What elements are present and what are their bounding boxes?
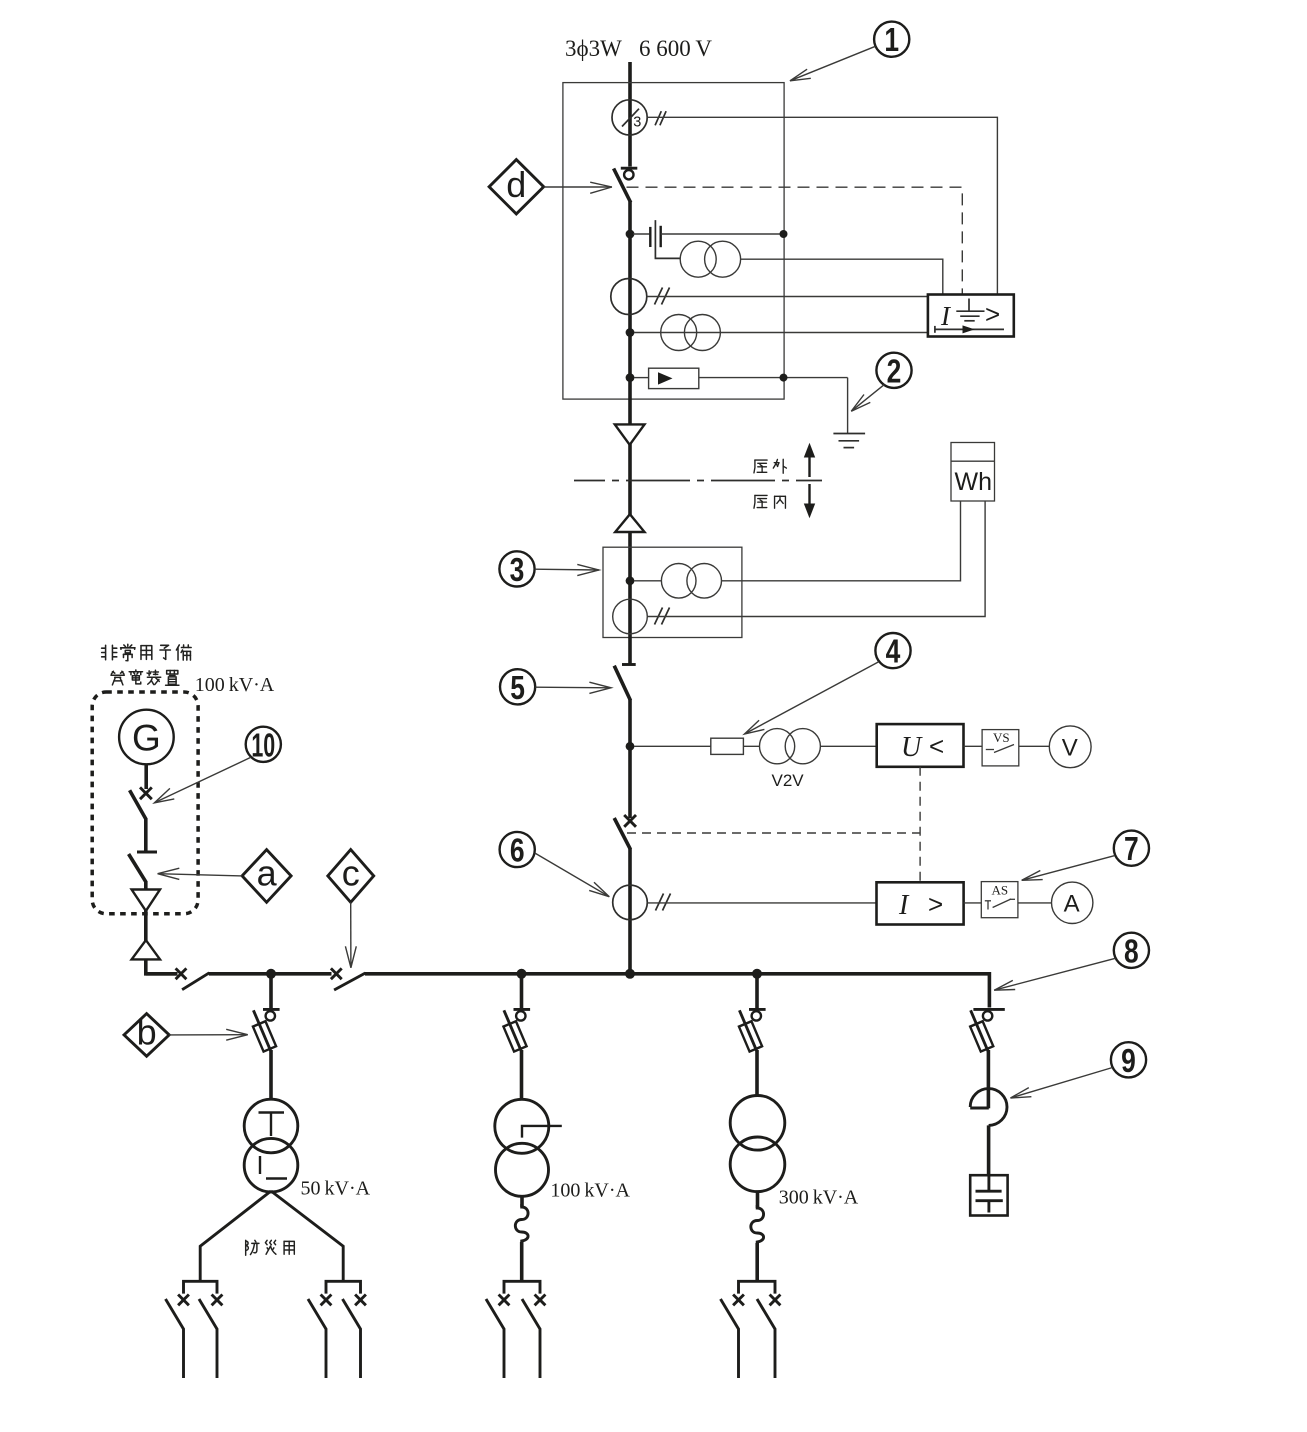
wire: T2 secondary (520, 1196, 524, 1208)
ammeter changeover switch AS (981, 882, 1018, 918)
branch breaker L3-1: contact cross (499, 1295, 510, 1306)
up arrow (outdoor side) (804, 443, 815, 477)
label diamond b (124, 1012, 169, 1057)
wire: T3 secondary to branch bar (755, 1243, 759, 1281)
double-slash mark on ZCT secondary wire (655, 111, 666, 125)
generator cable head (down triangle) (132, 890, 160, 911)
branch breaker L2-1: outgoing line (325, 1329, 328, 1379)
leader arrow from 3 to metering box (535, 564, 599, 575)
wire: CT secondary to ground relay left (lower) (634, 332, 928, 334)
branch bar (L4) (739, 1281, 776, 1293)
voltmeter V (1049, 726, 1091, 768)
metering CT circle (613, 599, 648, 634)
svg-text:5: 5 (510, 670, 525, 706)
feeder 3 fuse holder: hook eye (752, 1011, 761, 1020)
transformer T3 300kVA (two circles) (730, 1096, 785, 1192)
svg-text:A: A (1064, 891, 1080, 918)
bus tie switch c: contact cross (331, 968, 342, 979)
generator breaker 10: contact cross (140, 787, 152, 799)
disconnector a: blade (129, 854, 147, 882)
wire: indoor cable head into metering box (628, 531, 632, 583)
node: feeder 2 tap (517, 969, 527, 979)
leader arrow from 9 to reactor (1011, 1068, 1113, 1099)
svg-text:100 kV·A: 100 kV·A (195, 674, 275, 696)
transformer T1 50kVA (two circles) (244, 1099, 298, 1192)
leader arrow from 6 to CT (535, 853, 610, 897)
directional ground relay I-earth-> box (928, 295, 1014, 337)
wire: main line box1 bottom to outdoor cable head (628, 380, 632, 425)
capacitor feeder fuse (tilted barrel with blade) (964, 1008, 994, 1056)
bus tie switch b-side: contact cross (176, 968, 187, 979)
feeder 1 fuse holder: hook eye (266, 1011, 275, 1020)
wire AS to ammeter (1018, 902, 1052, 904)
CT pair (two circles) (661, 315, 721, 351)
bus segment 2 (209, 972, 332, 976)
svg-text:10: 10 (251, 727, 275, 764)
wire below disconnector a (144, 881, 148, 890)
wire: main line below breaker (628, 849, 632, 974)
power fuse cutout on capacitor feeder: contact bar (973, 1008, 1004, 1011)
balloon label 10 (246, 727, 281, 764)
svg-text:7: 7 (1124, 831, 1139, 867)
wire: ZCT secondary to ground relay (647, 117, 997, 294)
wire: T2 secondary to branch bar (520, 1242, 524, 1281)
svg-text:AS: AS (992, 883, 1009, 898)
outdoor cable head (down triangle) (615, 424, 645, 444)
branch breaker L3-2: contact cross (535, 1295, 546, 1306)
wire: fuse to transformer T2 (520, 1050, 524, 1100)
label generator set (hatsuden souchi) (111, 671, 124, 685)
node: ZPD tap on main line (626, 230, 635, 239)
node: incoming line to bus (625, 969, 635, 979)
wire below generator breaker (144, 819, 148, 852)
svg-text:2: 2 (887, 354, 902, 390)
balloon label 7 (1114, 831, 1149, 868)
load-break switch d: hook eye (624, 170, 633, 179)
load-break switch d: blade (614, 169, 631, 203)
dashed link U< to I> (919, 767, 921, 883)
transformer T2 100kVA (two circles with tap) (495, 1099, 562, 1196)
capacitor feeder fuse holder: hook eye (983, 1011, 992, 1020)
bus tie switch c: blade (334, 973, 365, 990)
flexible lead (feeder 2) (515, 1204, 528, 1243)
leader arrow from 4 to VT fuse (745, 662, 879, 734)
branch breaker L2-1: contact cross (321, 1295, 332, 1306)
branch breaker L3-2: outgoing line (539, 1329, 542, 1379)
svg-text:1: 1 (884, 22, 899, 58)
branch bar (L3) (504, 1281, 540, 1293)
node on box edge conductor (780, 230, 788, 238)
double-slash mark on ammeter CT wire (656, 894, 671, 911)
leader arrow from d to switch (544, 182, 612, 193)
branch breaker L4-2: outgoing line (774, 1329, 777, 1379)
branch breaker L1-2: blade (199, 1299, 217, 1330)
dashed link breaker 6 to relays (627, 832, 920, 834)
branch breaker L2-2: blade (343, 1299, 361, 1330)
label diamond a (242, 850, 291, 903)
svg-text:V: V (1062, 735, 1078, 762)
disconnector 5: blade (614, 666, 630, 701)
svg-text:I: I (898, 890, 910, 921)
label diamond c (328, 850, 374, 903)
flexible lead (feeder 3) (751, 1205, 764, 1244)
branch breaker L4-1: outgoing line (737, 1329, 740, 1379)
branch breaker L3-1: blade (486, 1299, 504, 1330)
svg-text:V2V: V2V (772, 771, 805, 790)
feeder 3 fuse holder: contact bar (749, 1008, 766, 1011)
svg-text:50 kV·A: 50 kV·A (301, 1178, 371, 1200)
wire: VT secondary to Wh meter (722, 501, 961, 581)
bus tie switch b-side: blade (182, 973, 209, 990)
leader arrow from 8 to bus end (994, 958, 1115, 990)
feeder 3 fuse (tilted barrel with blade) (733, 1008, 763, 1056)
wire: main line below disconnector (628, 700, 632, 819)
branch breaker L2-2: contact cross (355, 1295, 366, 1306)
wire between generator cable heads (144, 910, 148, 941)
overcurrent relay box I> (877, 882, 964, 924)
wire: CT secondary to Wh meter (647, 501, 985, 617)
ZPD auxiliary transformer (two circles) (680, 241, 740, 277)
wire: generator to breaker (144, 764, 148, 789)
label bousai-you (disaster prevention) (246, 1240, 259, 1255)
node: feeder 1 tap (266, 969, 276, 979)
branch breaker L4-2: blade (757, 1299, 775, 1330)
generator enclosure (dashed rounded box) (92, 692, 198, 914)
branch bar (L2) (326, 1281, 361, 1293)
wire: down to earth electrode (847, 378, 849, 434)
earth electrode E (833, 434, 865, 448)
balloon label 5 (500, 669, 535, 706)
branch breaker L4-2: contact cross (770, 1295, 781, 1306)
down arrow (indoor side) (804, 484, 815, 518)
metering VT (two circles) (661, 564, 721, 599)
branch breaker L2-1: blade (308, 1299, 326, 1330)
label okunai (indoor) (754, 495, 767, 508)
svg-text:U: U (901, 732, 923, 763)
indoor/outdoor boundary dash-dot line (574, 480, 822, 482)
feeder 2 fuse holder: contact bar (514, 1008, 531, 1011)
svg-text:a: a (257, 853, 278, 894)
undervoltage relay box U< (877, 724, 964, 767)
svg-text:d: d (506, 164, 526, 205)
watt-hour meter Wh (951, 443, 995, 502)
series reactor (9) (970, 1089, 1007, 1126)
wire: incoming service line (628, 62, 632, 167)
disconnector 5: fixed contact bar (622, 663, 636, 666)
wire: main line below switch d (628, 202, 632, 381)
bus segment 3 with right corner drop (365, 974, 989, 1008)
branch breaker L1-1: blade (166, 1299, 184, 1330)
indoor cable head (up triangle) (615, 514, 644, 532)
svg-text:G: G (132, 717, 161, 758)
circuit breaker 6: contact cross (624, 815, 636, 827)
wire relay to VS switch (964, 745, 983, 747)
wire VT to undervoltage relay (820, 745, 876, 747)
surge arrester box with arrow (634, 368, 699, 388)
svg-text:c: c (342, 853, 360, 894)
ZCT (3-conductor mark) on incoming line (612, 100, 647, 135)
disconnector a: fixed contact bar (137, 851, 157, 854)
branch breaker L2-2: outgoing line (359, 1329, 362, 1379)
balloon label 9 (1111, 1042, 1146, 1079)
svg-text:8: 8 (1124, 934, 1139, 970)
node: feeder 3 tap (752, 969, 762, 979)
double-slash mark on ZCT wire (655, 288, 670, 305)
svg-text:3ϕ3W: 3ϕ3W (565, 36, 622, 61)
wire: fuse to transformer T1 (269, 1050, 273, 1100)
wire: ZPD secondary to ground relay (741, 259, 943, 294)
wire: ZPD top line to box edge (661, 233, 784, 235)
CT circle for ammeter (613, 885, 648, 920)
generator cable head (up triangle) (132, 940, 160, 959)
node: arrester tap (626, 373, 635, 382)
svg-text:>: > (928, 889, 943, 919)
svg-text:4: 4 (886, 634, 901, 670)
bus segment: generator corner to tie switch (146, 972, 177, 976)
svg-text:9: 9 (1121, 1043, 1136, 1079)
svg-text:3: 3 (633, 115, 641, 131)
leader arrow from 2 to earth wire (851, 385, 884, 412)
balloon label 3 (499, 551, 534, 588)
feeder 1 fuse holder: contact bar (263, 1008, 280, 1011)
svg-text:>: > (985, 299, 1000, 329)
svg-text:<: < (929, 731, 944, 761)
label okugai (outdoor) (754, 460, 767, 473)
generator G (119, 710, 174, 765)
zero-phase CT circle on main line (611, 279, 647, 315)
metering enclosure box 3 (VCT) (603, 547, 742, 637)
branch breaker L1-1: outgoing line (182, 1329, 185, 1379)
svg-text:VS: VS (993, 730, 1010, 745)
branch breaker L4-1: contact cross (733, 1295, 744, 1306)
branch breaker L1-1: contact cross (178, 1295, 189, 1306)
ammeter A (1052, 882, 1093, 923)
power fuse cutout on feeder 2: drop wire (520, 974, 524, 1008)
leader arrow from a to disconnector (158, 868, 243, 879)
leader arrow from c to bus switch (345, 902, 356, 967)
balloon label 2 (876, 353, 911, 390)
wire to VT fuse (634, 745, 711, 747)
wire: fuse to series reactor (987, 1050, 991, 1108)
wire: arrester to earth (699, 377, 848, 379)
power fuse cutout on feeder 3: drop wire (755, 974, 759, 1008)
balloon label 1 (874, 22, 909, 59)
balloon label 6 (500, 832, 535, 869)
wire: between cable heads (628, 444, 632, 515)
node: VT branch tap (626, 742, 635, 751)
VT fuse (rectangle) (711, 738, 744, 754)
wire relay to AS (964, 902, 982, 904)
node: VT tap in box 3 (626, 576, 635, 585)
circuit breaker 6: blade (614, 818, 630, 850)
dashed control link from switch d to ground relay (627, 187, 963, 294)
branch breaker L4-1: blade (721, 1299, 739, 1330)
leader arrow from b to fuse cutout (169, 1029, 248, 1040)
branch breaker L1-2: outgoing line (216, 1329, 219, 1379)
feeder 2 fuse (tilted barrel with blade) (498, 1008, 528, 1056)
node: CT tap (626, 328, 635, 337)
wire: T1 secondary fork right (271, 1191, 343, 1281)
load-break switch d: fixed contact bar (621, 167, 638, 170)
instrument VT V2V (two circles) (760, 729, 821, 764)
wire: generator to bus corner (146, 959, 178, 974)
wire: CT to overcurrent relay (647, 902, 876, 904)
branch breaker L1-2: contact cross (212, 1295, 223, 1306)
svg-text:Wh: Wh (955, 468, 993, 496)
svg-text:3: 3 (510, 552, 525, 588)
leader arrow from 7 to AS (1022, 856, 1115, 881)
wire: T1 secondary fork left (200, 1191, 271, 1281)
branch breaker L3-2: blade (522, 1299, 540, 1330)
branch bar (L1) (184, 1281, 218, 1293)
double-slash mark on CT wire (655, 608, 670, 625)
label emergency standby (hijouyou yobi) (102, 645, 117, 659)
balloon label 8 (1114, 933, 1149, 970)
feeder 1 fuse (tilted barrel with blade) (247, 1008, 277, 1056)
leader arrow from 10 to generator breaker (154, 757, 251, 803)
wire VS to voltmeter (1019, 745, 1050, 747)
svg-text:6 600 V: 6 600 V (639, 36, 712, 61)
svg-text:300 kV·A: 300 kV·A (779, 1187, 859, 1209)
enclosure box 1 (incoming switchgear PAS) (563, 83, 784, 400)
power fuse cutout on feeder 1: drop wire (269, 974, 273, 1008)
wire: reactor to capacitor (987, 1125, 991, 1176)
svg-text:100 kV·A: 100 kV·A (550, 1180, 630, 1202)
svg-text:b: b (137, 1012, 157, 1053)
balloon label 4 (875, 633, 910, 670)
leader arrow from 5 to disconnector (535, 682, 611, 693)
branch breaker L3-1: outgoing line (503, 1329, 506, 1379)
power capacitor box (970, 1175, 1007, 1215)
wire: main line through box 3 (628, 580, 632, 665)
ZPD coupling capacitor (633, 220, 680, 258)
svg-text:6: 6 (510, 833, 525, 869)
generator breaker 10: blade (130, 790, 147, 819)
feeder 2 fuse holder: hook eye (516, 1011, 525, 1020)
wire fuse to VT (743, 745, 759, 747)
leader arrow from 1 to box corner (790, 46, 875, 81)
wire: ZCT to ground relay left (upper) (647, 296, 928, 298)
label diamond d (489, 160, 544, 214)
wire to metering VT (634, 580, 661, 582)
wire: fuse to transformer T3 (755, 1050, 759, 1096)
voltmeter changeover switch VS (982, 730, 1019, 766)
node: arrester wire on box edge (780, 374, 788, 382)
wire: T3 secondary (756, 1191, 760, 1208)
